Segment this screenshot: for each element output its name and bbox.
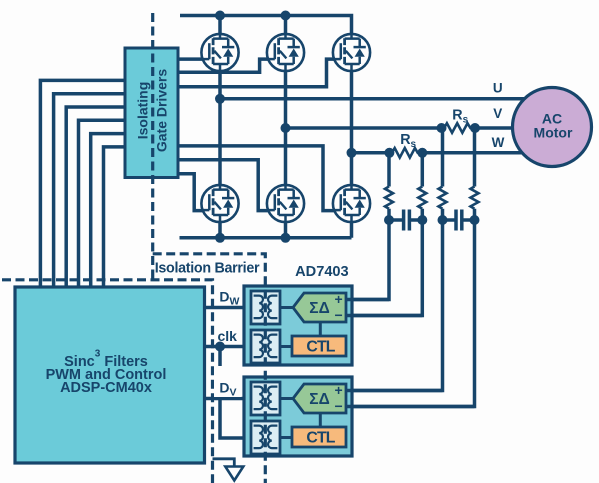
svg-text:Motor: Motor <box>534 125 573 141</box>
svg-text:V: V <box>493 106 502 121</box>
svg-text:W: W <box>492 135 505 150</box>
svg-text:Isolating: Isolating <box>135 82 151 140</box>
svg-text:Isolation Barrier: Isolation Barrier <box>155 261 260 277</box>
svg-text:U: U <box>493 80 503 95</box>
svg-text:Gate Drivers: Gate Drivers <box>154 69 170 152</box>
svg-text:AD7403: AD7403 <box>295 264 349 280</box>
svg-text:clk: clk <box>218 328 238 344</box>
svg-text:ADSP-CM40x: ADSP-CM40x <box>60 380 152 396</box>
